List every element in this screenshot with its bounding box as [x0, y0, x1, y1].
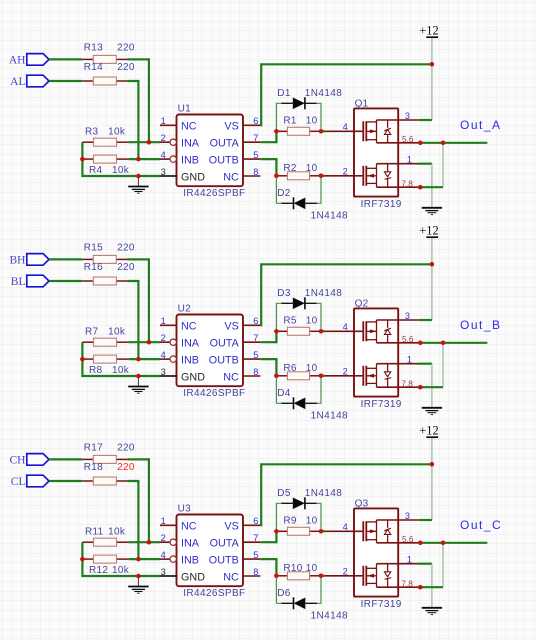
svg-text:2: 2 [343, 567, 348, 577]
svg-text:4: 4 [343, 122, 348, 132]
wire +12 to Q source [431, 64, 433, 120]
svg-text:3: 3 [161, 367, 166, 377]
wire AL to R14 [49, 80, 82, 82]
svg-text:220: 220 [117, 442, 135, 453]
svg-text:OUTB: OUTB [209, 355, 239, 367]
port CH [27, 454, 49, 466]
svg-text:3: 3 [161, 167, 166, 177]
junction out 1 [418, 541, 423, 546]
junction gnd row [136, 574, 141, 579]
svg-text:GND: GND [181, 371, 205, 383]
junction R-D bot right [319, 374, 324, 379]
resistor R7 10k [82, 338, 128, 346]
svg-text:NC: NC [181, 121, 197, 133]
svg-text:1: 1 [161, 516, 166, 526]
wire VS to +12 rail [260, 464, 432, 525]
junction gnd row [136, 174, 141, 179]
resistor R5 10 [276, 327, 321, 335]
wire D5 branch left [276, 503, 283, 531]
svg-text:2: 2 [161, 533, 166, 543]
wire N drain tie [420, 586, 443, 588]
IC U2 IR4426SPBF [160, 315, 260, 387]
junction R-D top right [319, 129, 324, 134]
svg-text:2: 2 [343, 367, 348, 377]
wire N source to gnd [418, 563, 432, 565]
svg-text:220: 220 [117, 42, 135, 53]
svg-text:5,6: 5,6 [402, 535, 414, 544]
junction INB node [136, 357, 141, 362]
diode D2 1N4148 [282, 197, 318, 209]
wire D5 branch right [317, 503, 322, 531]
svg-text:220: 220 [117, 242, 135, 253]
junction R-D top left [274, 329, 279, 334]
svg-text:R4: R4 [89, 165, 103, 176]
diode D5 1N4148 [282, 497, 317, 509]
transistor Q3 IRF7319 [325, 508, 420, 596]
junction R-left gnd [80, 357, 85, 362]
svg-text:7: 7 [253, 533, 258, 543]
junction R-D top right [319, 329, 324, 334]
port AL [27, 75, 49, 87]
svg-text:D3: D3 [277, 288, 291, 299]
port BL [27, 275, 49, 287]
svg-text:INA: INA [181, 338, 200, 350]
svg-text:7: 7 [253, 333, 258, 343]
svg-text:1N4148: 1N4148 [311, 411, 348, 422]
svg-text:CL: CL [11, 476, 26, 488]
svg-text:1N4148: 1N4148 [305, 88, 342, 99]
svg-text:5: 5 [253, 150, 258, 160]
IC U1 IR4426SPBF [160, 115, 260, 187]
wire Q source to +12 [419, 519, 432, 521]
svg-text:IR4426SPBF: IR4426SPBF [183, 188, 245, 199]
ground [128, 376, 148, 393]
svg-text:U1: U1 [178, 104, 192, 115]
wire output net Out_C [420, 542, 487, 544]
svg-text:10k: 10k [112, 165, 130, 176]
svg-text:VS: VS [224, 521, 238, 533]
junction N drain [418, 185, 423, 190]
svg-text:R3: R3 [85, 127, 99, 138]
junction R-D bot left [274, 574, 279, 579]
junction INA node [147, 340, 152, 345]
wire D4 branch left [276, 376, 283, 404]
svg-text:INB: INB [181, 155, 199, 167]
svg-text:Q3: Q3 [355, 499, 369, 510]
junction gnd row [136, 374, 141, 379]
wire INA net [128, 141, 160, 143]
svg-text:1: 1 [161, 116, 166, 126]
svg-text:INA: INA [181, 138, 200, 150]
svg-text:IRF7319: IRF7319 [361, 399, 402, 410]
wire to Q gate top [321, 130, 325, 132]
svg-text:D1: D1 [277, 88, 291, 99]
svg-text:GND: GND [181, 571, 205, 583]
svg-text:OUTB: OUTB [209, 555, 239, 567]
svg-text:OUTA: OUTA [210, 538, 240, 550]
svg-text:R16: R16 [84, 262, 103, 273]
svg-text:INA: INA [181, 538, 200, 550]
wire AH to R13 [49, 58, 82, 60]
wire N source drop [431, 164, 433, 207]
svg-text:5,6: 5,6 [402, 135, 414, 144]
resistor R2 10 [276, 172, 321, 180]
svg-text:4: 4 [161, 550, 166, 560]
transistor Q2 IRF7319 [325, 308, 420, 396]
svg-text:IRF7319: IRF7319 [361, 199, 402, 210]
wire R14 to INB node [127, 81, 138, 159]
wire CL to R18 [49, 480, 82, 482]
svg-text:4: 4 [343, 522, 348, 532]
wire N source to gnd [418, 363, 432, 365]
wire INB net [128, 558, 160, 560]
junction INB node [136, 557, 141, 562]
svg-text:10: 10 [306, 115, 318, 126]
junction R-D top left [274, 529, 279, 534]
wire OUTA to R-D node [260, 131, 276, 142]
port BH [27, 254, 49, 266]
ground [128, 176, 148, 193]
wire Q source to +12 [419, 319, 432, 321]
junction R-D bot left [274, 374, 279, 379]
svg-text:10k: 10k [108, 527, 126, 538]
svg-text:1N4148: 1N4148 [305, 488, 342, 499]
junction +12 rail [430, 62, 435, 67]
svg-text:+12: +12 [419, 223, 439, 237]
svg-text:1: 1 [407, 355, 412, 365]
junction out 2 [441, 341, 446, 346]
ground [422, 408, 442, 415]
diode D3 1N4148 [282, 297, 317, 309]
wire OUTB to R-D node [260, 559, 276, 576]
svg-text:10k: 10k [108, 327, 126, 338]
diode D6 1N4148 [282, 597, 318, 609]
svg-text:220: 220 [117, 262, 135, 273]
resistor R17 220 [82, 455, 127, 463]
svg-text:CH: CH [10, 455, 26, 467]
wire INB net [128, 158, 160, 160]
junction out 2 [441, 541, 446, 546]
svg-text:8: 8 [253, 167, 258, 177]
svg-text:U2: U2 [178, 304, 192, 315]
wire N drain tie [420, 386, 443, 388]
junction out 2 [441, 141, 446, 146]
wire INB net [128, 358, 160, 360]
wire BL to R16 [49, 280, 82, 282]
svg-text:NC: NC [181, 521, 197, 533]
wire to Q gate bottom [321, 575, 325, 577]
svg-text:R13: R13 [84, 42, 103, 53]
wire N source drop [431, 564, 433, 607]
wire R13 to INA node [127, 59, 148, 142]
resistor R14 220 [82, 77, 127, 85]
wire CH to R17 [49, 458, 82, 460]
svg-text:6: 6 [253, 116, 258, 126]
diode D4 1N4148 [282, 397, 318, 409]
svg-text:7: 7 [253, 133, 258, 143]
svg-text:5: 5 [253, 550, 258, 560]
svg-text:7,8: 7,8 [401, 579, 413, 588]
wire +12 drop [431, 238, 433, 264]
svg-text:Out_B: Out_B [460, 318, 502, 332]
svg-text:R9: R9 [283, 515, 297, 526]
svg-text:+12: +12 [419, 423, 439, 437]
svg-text:Out_A: Out_A [460, 118, 502, 132]
wire +12 to Q source [431, 464, 433, 520]
junction INB node [136, 157, 141, 162]
wire R15 to INA node [127, 259, 148, 342]
svg-text:AL: AL [10, 76, 25, 88]
svg-text:R14: R14 [84, 62, 103, 73]
svg-text:+12: +12 [419, 23, 439, 37]
svg-text:R12: R12 [89, 565, 108, 576]
svg-text:1N4148: 1N4148 [311, 611, 348, 622]
junction R-left gnd [80, 157, 85, 162]
wire OUTB to R-D node [260, 159, 276, 176]
svg-text:IRF7319: IRF7319 [361, 599, 402, 610]
wire output net Out_A [420, 142, 487, 144]
ground [128, 576, 148, 593]
wire Q source to +12 [419, 119, 432, 121]
svg-text:3: 3 [161, 567, 166, 577]
wire R17 to INA node [127, 459, 148, 542]
junction INA node [147, 140, 152, 145]
wire R11/R12 left to GND row [82, 542, 160, 576]
wire OUTB to R-D node [260, 359, 276, 376]
wire to Q gate bottom [321, 375, 325, 377]
resistor R13 220 [82, 55, 127, 63]
svg-text:Out_C: Out_C [460, 518, 502, 532]
svg-text:R8: R8 [89, 365, 103, 376]
svg-text:1: 1 [161, 316, 166, 326]
section Out_B [10, 223, 502, 421]
wire INA net [128, 341, 160, 343]
svg-text:IR4426SPBF: IR4426SPBF [183, 588, 245, 599]
svg-text:U3: U3 [178, 504, 192, 515]
junction R-D bot right [319, 174, 324, 179]
wire to Q gate bottom [321, 175, 325, 177]
svg-text:7,8: 7,8 [401, 179, 413, 188]
svg-text:Q2: Q2 [355, 299, 369, 310]
svg-text:D2: D2 [277, 188, 291, 199]
port CL [27, 475, 49, 487]
svg-text:NC: NC [223, 571, 239, 583]
svg-text:10k: 10k [108, 127, 126, 138]
svg-text:R11: R11 [85, 527, 104, 538]
junction +12 rail [430, 262, 435, 267]
wire OUTA to R-D node [260, 331, 276, 342]
svg-text:R7: R7 [85, 327, 99, 338]
svg-text:R10: R10 [283, 563, 302, 574]
svg-text:10: 10 [306, 163, 318, 174]
svg-text:IR4426SPBF: IR4426SPBF [183, 388, 245, 399]
svg-text:OUTA: OUTA [210, 338, 240, 350]
wire D3 branch left [276, 303, 283, 331]
resistor R12 10k [82, 555, 128, 563]
wire INA net [128, 541, 160, 543]
wire D1 branch right [317, 103, 322, 131]
svg-text:10: 10 [306, 363, 318, 374]
svg-text:NC: NC [223, 371, 239, 383]
diode D1 1N4148 [282, 97, 317, 109]
wire +12 to Q source [431, 264, 433, 320]
svg-text:5: 5 [253, 350, 258, 360]
junction INA node [147, 540, 152, 545]
svg-text:220: 220 [117, 62, 135, 73]
wire drain tie vertical [442, 343, 444, 387]
ground [422, 608, 442, 615]
svg-text:220: 220 [117, 462, 135, 473]
resistor R10 10 [276, 572, 321, 580]
svg-text:4: 4 [161, 150, 166, 160]
junction R-left gnd [80, 557, 85, 562]
wire D2 branch right [317, 176, 321, 204]
resistor R6 10 [276, 372, 321, 380]
svg-text:6: 6 [253, 316, 258, 326]
junction out 1 [418, 341, 423, 346]
resistor R8 10k [82, 355, 128, 363]
svg-text:10: 10 [306, 515, 318, 526]
junction out 1 [418, 141, 423, 146]
svg-text:1: 1 [407, 155, 412, 165]
svg-text:3: 3 [405, 111, 410, 121]
wire D6 branch left [276, 576, 283, 604]
svg-text:10k: 10k [112, 565, 130, 576]
wire D4 branch right [317, 376, 321, 404]
wire D3 branch right [317, 303, 322, 331]
svg-text:R17: R17 [84, 442, 103, 453]
svg-text:D5: D5 [277, 488, 291, 499]
junction N drain [418, 385, 423, 390]
svg-text:2: 2 [343, 167, 348, 177]
svg-text:BL: BL [11, 276, 26, 288]
svg-text:R15: R15 [84, 242, 103, 253]
svg-text:1: 1 [407, 555, 412, 565]
svg-text:D4: D4 [277, 388, 291, 399]
resistor R3 10k [82, 138, 128, 146]
svg-text:INB: INB [181, 355, 199, 367]
wire D2 branch left [276, 176, 283, 204]
svg-text:8: 8 [253, 367, 258, 377]
resistor R11 10k [82, 538, 128, 546]
wire R18 to INB node [127, 481, 138, 559]
svg-text:3: 3 [405, 311, 410, 321]
wire D1 branch left [276, 103, 283, 131]
svg-text:OUTA: OUTA [210, 138, 240, 150]
port AH [27, 54, 49, 66]
svg-text:VS: VS [224, 321, 238, 333]
svg-text:10: 10 [306, 563, 318, 574]
svg-text:10: 10 [306, 315, 318, 326]
svg-text:6: 6 [253, 516, 258, 526]
junction R-D top left [274, 129, 279, 134]
junction +12 rail [430, 462, 435, 467]
svg-text:7,8: 7,8 [401, 379, 413, 388]
resistor R18 220 [82, 477, 127, 485]
svg-text:4: 4 [343, 322, 348, 332]
svg-text:R18: R18 [84, 462, 103, 473]
svg-text:OUTB: OUTB [209, 155, 239, 167]
resistor R15 220 [82, 255, 127, 263]
svg-text:GND: GND [181, 171, 205, 183]
section Out_A [9, 23, 502, 221]
ground [422, 208, 442, 215]
svg-text:5,6: 5,6 [402, 335, 414, 344]
svg-text:4: 4 [161, 350, 166, 360]
section Out_C [10, 423, 503, 621]
wire N source drop [431, 364, 433, 407]
resistor R9 10 [276, 527, 321, 535]
resistor R1 10 [276, 127, 321, 135]
resistor R4 10k [82, 155, 128, 163]
svg-text:NC: NC [181, 321, 197, 333]
junction R-D bot left [274, 174, 279, 179]
resistor R16 220 [82, 277, 127, 285]
wire OUTA to R-D node [260, 531, 276, 542]
svg-text:2: 2 [161, 333, 166, 343]
IC U3 IR4426SPBF [160, 515, 260, 587]
wire VS to +12 rail [260, 64, 432, 125]
svg-text:Q1: Q1 [355, 99, 369, 110]
wire +12 drop [431, 438, 433, 464]
svg-text:AH: AH [9, 55, 26, 67]
wire R16 to INB node [127, 281, 138, 359]
junction N drain [418, 585, 423, 590]
svg-text:1N4148: 1N4148 [305, 288, 342, 299]
wire R3/R4 left to GND row [82, 142, 160, 176]
wire +12 drop [431, 38, 433, 64]
wire VS to +12 rail [260, 264, 432, 325]
transistor Q1 IRF7319 [325, 108, 420, 196]
wire D6 branch right [317, 576, 321, 604]
svg-text:10k: 10k [112, 365, 130, 376]
svg-text:INB: INB [181, 555, 199, 567]
svg-text:BH: BH [10, 255, 26, 267]
svg-text:2: 2 [161, 133, 166, 143]
svg-text:R6: R6 [283, 363, 297, 374]
svg-text:R1: R1 [283, 115, 297, 126]
wire N drain tie [420, 186, 443, 188]
svg-text:8: 8 [253, 567, 258, 577]
wire R7/R8 left to GND row [82, 342, 160, 376]
wire to Q gate top [321, 330, 325, 332]
wire drain tie vertical [442, 543, 444, 587]
svg-text:1N4148: 1N4148 [311, 211, 348, 222]
svg-text:NC: NC [223, 171, 239, 183]
junction R-D top right [319, 529, 324, 534]
wire drain tie vertical [442, 143, 444, 187]
svg-text:R5: R5 [283, 315, 297, 326]
svg-text:VS: VS [224, 121, 238, 133]
wire output net Out_B [420, 342, 487, 344]
junction R-D bot right [319, 574, 324, 579]
wire BH to R15 [49, 258, 82, 260]
svg-text:3: 3 [405, 511, 410, 521]
wire N source to gnd [418, 163, 432, 165]
svg-text:D6: D6 [277, 588, 291, 599]
svg-text:R2: R2 [283, 163, 297, 174]
wire to Q gate top [321, 530, 325, 532]
